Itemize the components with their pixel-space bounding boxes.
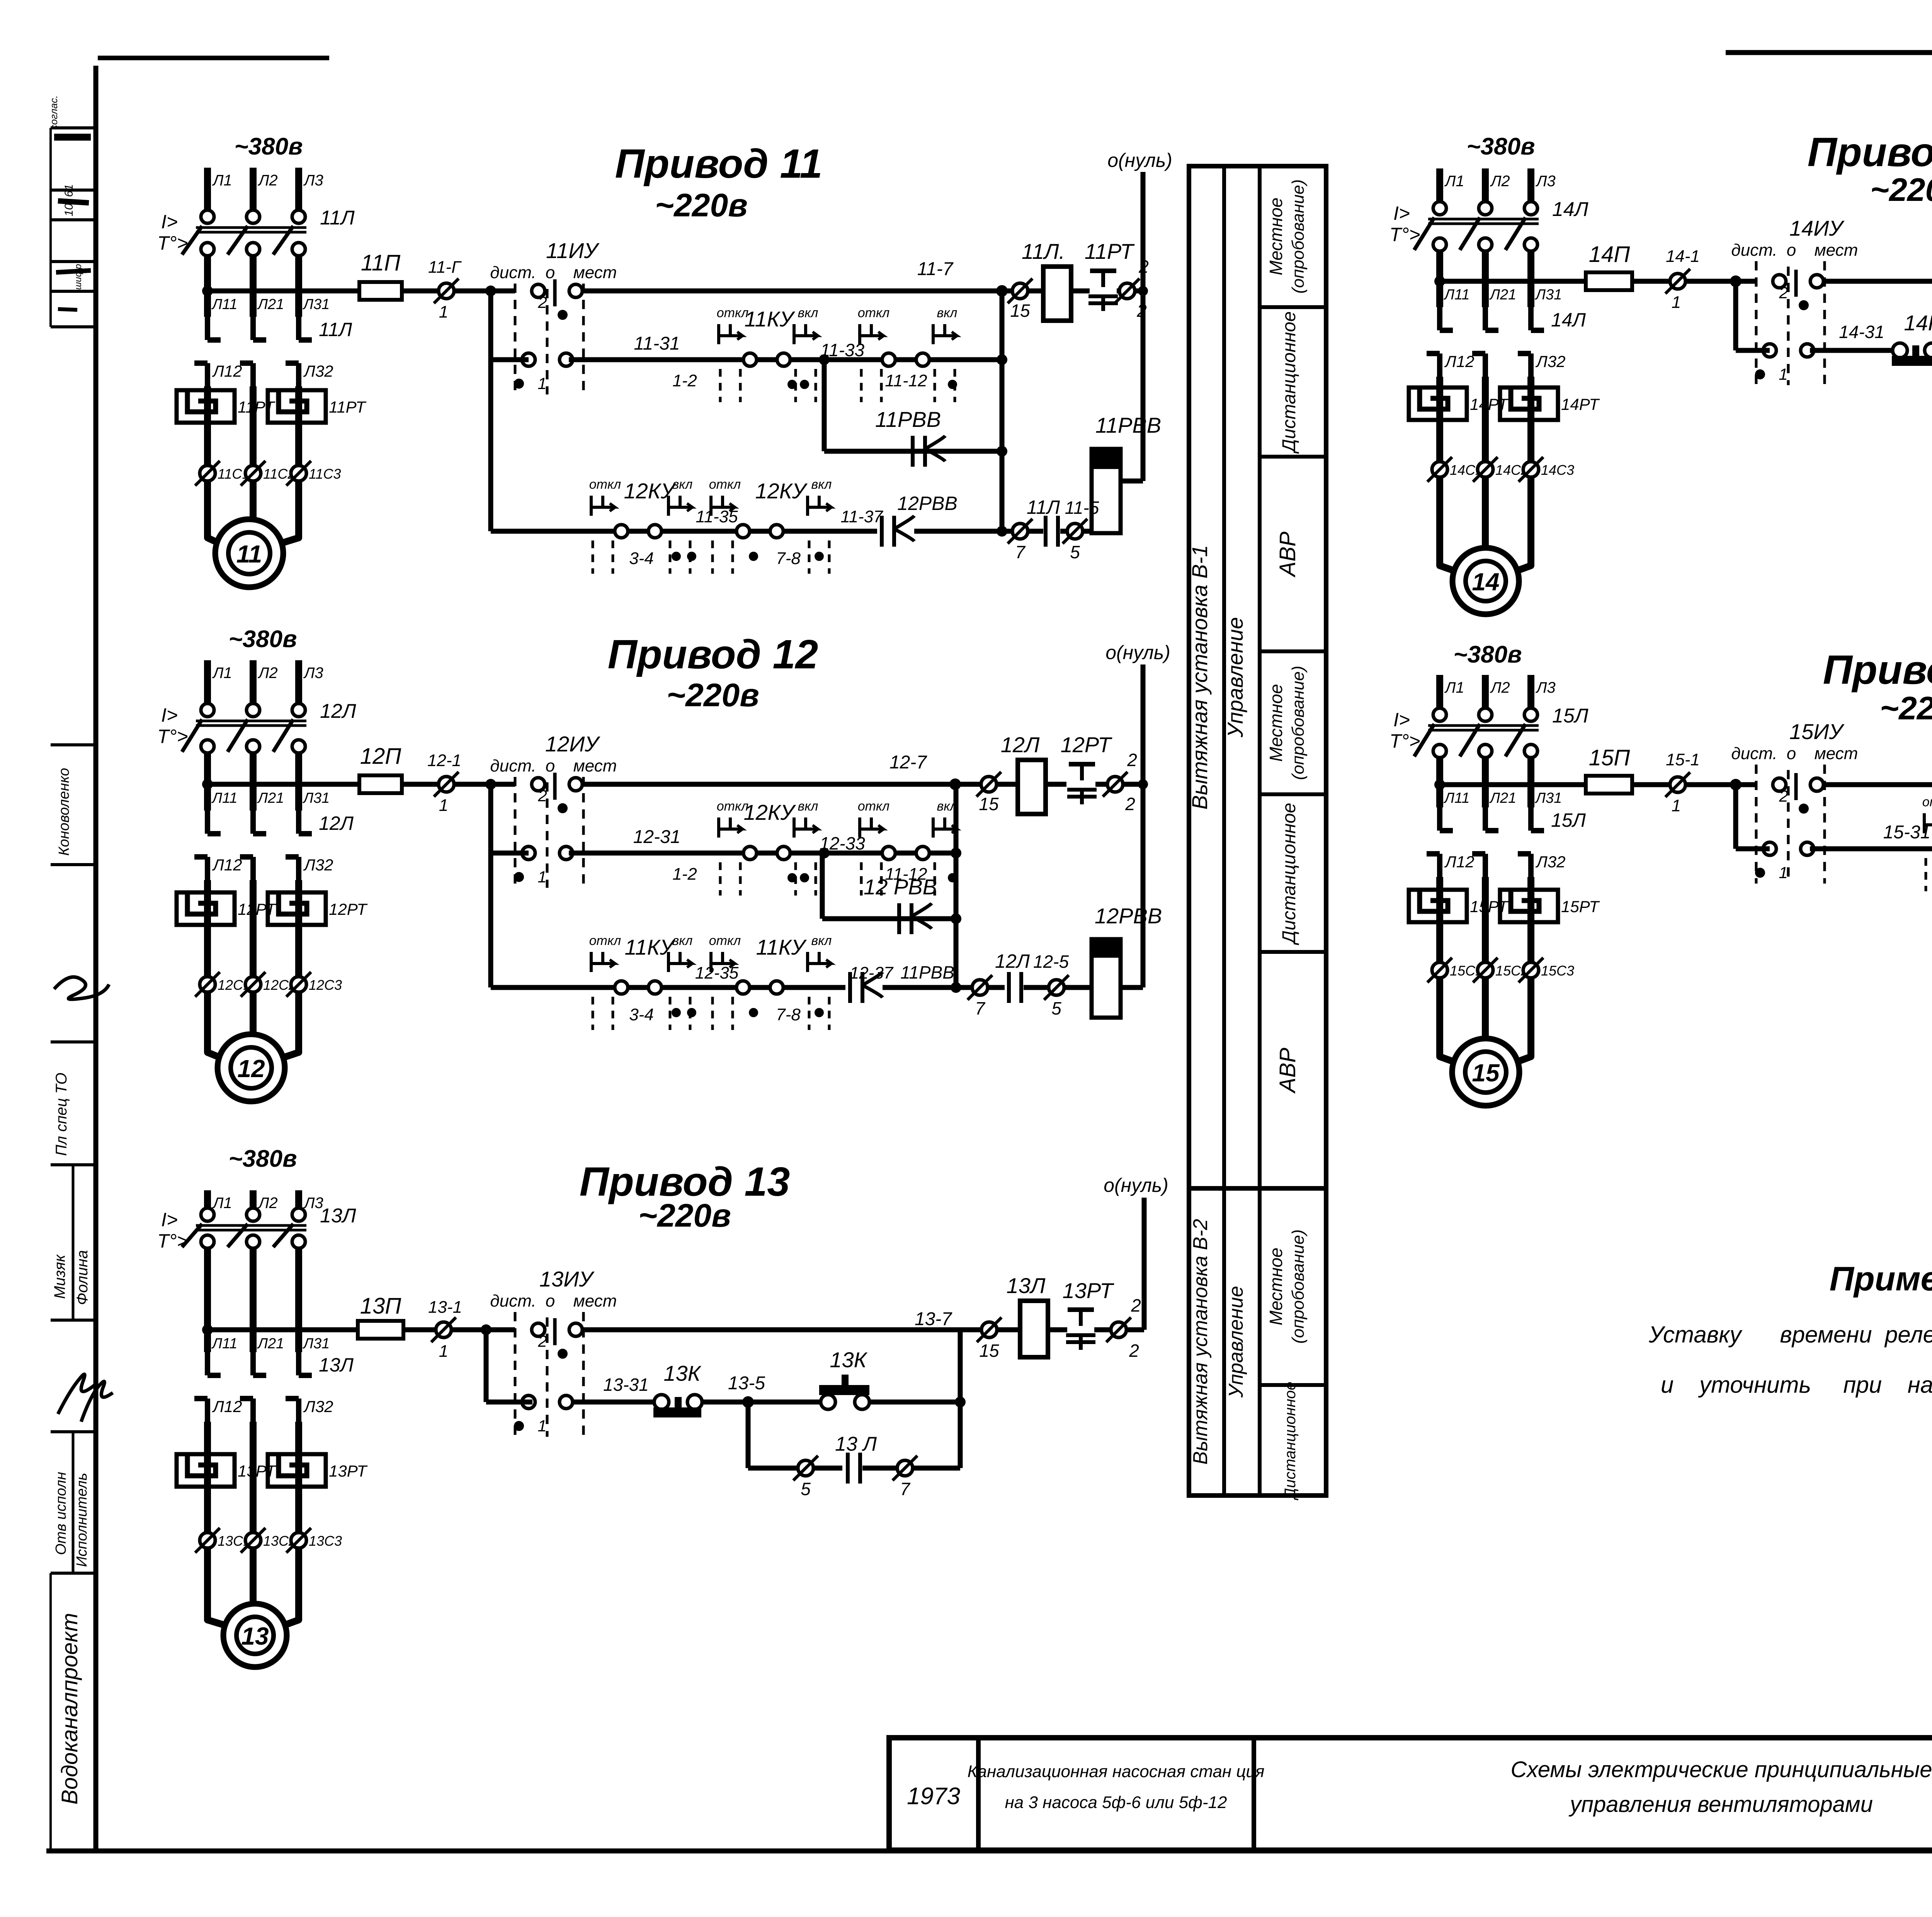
svg-text:12КУ: 12КУ — [743, 800, 796, 824]
svg-text:Схемы электрические принци: Схемы электрические принципиальные — [1510, 1757, 1932, 1782]
svg-text:откл: откл — [858, 799, 889, 814]
svg-text:2: 2 — [1127, 750, 1137, 770]
12ИУ contacts on main rung — [532, 778, 545, 791]
svg-text:I>: I> — [1393, 202, 1410, 224]
svg-text:12: 12 — [237, 1055, 265, 1083]
svg-text:Л31: Л31 — [1534, 287, 1562, 303]
svg-text:(опробование): (опробование) — [1289, 1229, 1308, 1344]
14: phase line Л3 — [1527, 168, 1534, 202]
svg-text:13: 13 — [241, 1622, 269, 1650]
svg-text:13-7: 13-7 — [915, 1309, 952, 1329]
svg-text:~220в: ~220в — [667, 677, 759, 713]
svg-text:1: 1 — [439, 1342, 448, 1361]
15: thermal relay heater 15РТ (phase1) — [1409, 890, 1467, 922]
svg-text:управления вентиляторами: управления вентиляторами — [1568, 1792, 1873, 1817]
12: phase drop 3 — [295, 753, 302, 811]
svg-text:Л1: Л1 — [212, 664, 232, 681]
svg-text:11Л: 11Л — [319, 319, 352, 340]
stamp tick — [51, 1040, 96, 1043]
motor 14 — [1452, 548, 1519, 614]
svg-text:(опробование): (опробование) — [1289, 179, 1308, 294]
svg-text:откл: откл — [858, 306, 889, 320]
svg-text:Л32: Л32 — [303, 856, 333, 874]
15: phase line Л1 — [1436, 675, 1443, 708]
motor 11 — [215, 519, 283, 587]
14: breaker linkage — [1428, 218, 1539, 221]
svg-text:1973: 1973 — [907, 1783, 960, 1810]
15: contactor main contact 3 — [1528, 807, 1534, 831]
svg-text:15П: 15П — [1589, 745, 1631, 770]
svg-text:Л31: Л31 — [302, 296, 330, 313]
svg-text:Привод 14: Привод 14 — [1808, 129, 1932, 175]
svg-text:7: 7 — [1015, 542, 1026, 562]
thermal contact 13РТ — [1068, 1307, 1094, 1312]
middle table cell divider y=1686 — [1260, 649, 1326, 653]
drive14 main rung to node 14-7 — [1825, 279, 1932, 284]
svg-text:~220в: ~220в — [1880, 690, 1932, 726]
svg-text:Вытяжная установка В-2: Вытяжная установка В-2 — [1189, 1219, 1212, 1465]
drive13 aux branch 13Л — [746, 1402, 751, 1468]
15: phase drop 3 — [1527, 758, 1534, 807]
middle table cell divider y=795 — [1260, 305, 1326, 309]
12: breaker pole 2 — [247, 704, 260, 717]
svg-text:3-4: 3-4 — [629, 549, 654, 568]
svg-text:мест: мест — [573, 756, 617, 775]
11: thermal relay heater 11РТ (phase3) — [268, 390, 326, 423]
12: motor feed wires — [207, 992, 224, 1059]
svg-text:I>: I> — [161, 211, 178, 233]
svg-text:12-7: 12-7 — [889, 752, 927, 773]
13: thermal relay heater 13РТ (phase3) — [268, 1454, 326, 1487]
15: breaker pole 2 — [1479, 708, 1492, 721]
11: motor feed wires — [207, 481, 222, 545]
svg-text:11РТ: 11РТ — [1085, 239, 1135, 263]
svg-text:12Л: 12Л — [1001, 732, 1040, 757]
15: breaker pole 3 — [1524, 708, 1537, 721]
svg-text:Т°>: Т°> — [1389, 224, 1420, 245]
drive12 main rung — [207, 782, 359, 787]
terminal 12-1 — [439, 777, 454, 792]
svg-text:2: 2 — [1125, 794, 1135, 814]
fuse 12П — [359, 775, 402, 793]
svg-text:11РВВ: 11РВВ — [900, 962, 954, 982]
svg-text:1: 1 — [537, 1417, 546, 1435]
svg-text:11-12: 11-12 — [885, 371, 927, 390]
drive13 main rung — [207, 1327, 358, 1332]
14: contactor main contact 3 — [1528, 307, 1534, 330]
svg-text:15-1: 15-1 — [1666, 750, 1700, 769]
svg-text:откл: откл — [589, 933, 621, 948]
drive12 node line 12-7 vertical — [954, 784, 959, 987]
svg-text:5: 5 — [1051, 998, 1061, 1018]
12: breaker pole 3 — [292, 704, 305, 717]
14: stator terminal 14С2 — [1478, 462, 1493, 477]
svg-text:Л31: Л31 — [1534, 790, 1562, 806]
svg-text:14: 14 — [1472, 568, 1499, 596]
svg-text:на 3 насоса 5ф-6 или 5ф-12: на 3 насоса 5ф-6 или 5ф-12 — [1005, 1793, 1227, 1812]
svg-text:2: 2 — [1129, 1341, 1139, 1361]
svg-text:мест: мест — [1815, 241, 1858, 260]
11: thermal relay heater 11РТ (phase1) — [177, 390, 235, 423]
14: thermal relay heater 14РТ (phase1) — [1409, 387, 1467, 420]
terminal 15 — [981, 1322, 997, 1337]
terminal 7 — [972, 980, 988, 995]
stamp tick — [51, 1572, 96, 1575]
svg-text:откл: откл — [589, 477, 621, 492]
svg-text:АВР: АВР — [1275, 1048, 1300, 1094]
15ИУ contacts on main rung — [1773, 778, 1786, 791]
15: phase line Л2 — [1482, 675, 1489, 708]
svg-text:Дистанционное: Дистанционное — [1282, 1382, 1299, 1500]
12КУ контакт откл 2 — [882, 846, 895, 860]
11: breaker pole 3 — [292, 210, 305, 223]
svg-text:о(нуль): о(нуль) — [1107, 150, 1172, 171]
svg-text:7: 7 — [975, 998, 985, 1018]
signatures — [58, 1374, 95, 1414]
svg-text:11П: 11П — [361, 250, 401, 275]
svg-text:дист.: дист. — [1731, 241, 1777, 260]
15: contactor main contact 2 — [1483, 807, 1488, 831]
terminal 13-1 — [436, 1322, 451, 1337]
svg-text:15ИУ: 15ИУ — [1789, 719, 1845, 744]
svg-text:о: о — [546, 1292, 555, 1310]
signature squiggle — [54, 977, 109, 999]
svg-text:Вытяжная установка В-1: Вытяжная установка В-1 — [1187, 545, 1212, 809]
12: thermal relay heater 12РТ (phase1) — [177, 892, 235, 925]
13: phase line Л3 — [295, 1190, 302, 1208]
frame left border — [94, 66, 99, 1851]
svg-text:2: 2 — [537, 293, 547, 311]
svg-text:Л32: Л32 — [1535, 352, 1566, 370]
svg-text:Местное: Местное — [1266, 684, 1286, 761]
11РВВ instant contact branch — [822, 360, 827, 451]
15: motor feed wires — [1440, 978, 1459, 1064]
13ИУ contacts on main rung — [532, 1323, 545, 1336]
svg-text:11-37: 11-37 — [840, 507, 883, 526]
svg-text:~220в: ~220в — [655, 187, 748, 223]
svg-text:13 Л: 13 Л — [835, 1433, 877, 1455]
svg-text:Л32: Л32 — [303, 1397, 333, 1416]
fuse 11П — [359, 282, 402, 300]
15: thermal relay heater 15РТ (phase3) — [1500, 890, 1558, 922]
svg-text:12-5: 12-5 — [1033, 952, 1069, 972]
svg-text:14-31: 14-31 — [1839, 322, 1884, 342]
svg-text:15С3: 15С3 — [1541, 963, 1574, 979]
11КУ контакт откл 2 (rung3) — [736, 981, 750, 994]
13: contactor main contact 3 — [296, 1352, 301, 1375]
svg-text:11Л.: 11Л. — [1022, 239, 1065, 263]
terminal 2 — [1111, 1322, 1126, 1337]
svg-text:Л3: Л3 — [1535, 679, 1556, 696]
12: thermal relay heater 12РТ (phase3) — [268, 892, 326, 925]
svg-text:13К: 13К — [830, 1348, 867, 1372]
svg-text:Л12: Л12 — [1444, 352, 1475, 370]
11КУ контакт вкл 2 (rung3) — [808, 962, 831, 965]
middle table cell divider y=3585 — [1260, 1383, 1326, 1387]
terminal 15-1 — [1670, 777, 1685, 792]
12: phase line Л2 — [250, 660, 257, 704]
11: phase line Л1 — [204, 168, 211, 210]
terminal 7 — [897, 1460, 913, 1476]
frame bottom border — [46, 1849, 1932, 1854]
terminal 14-1 — [1670, 274, 1685, 289]
11: contactor main contact 2 — [250, 317, 256, 340]
drive13 branch down to rung2 — [484, 1330, 489, 1402]
15: stator terminal 15С1 — [1432, 962, 1447, 978]
svg-text:I>: I> — [1393, 709, 1410, 731]
13: wires to thermal relays — [204, 1422, 211, 1487]
stamp smudges — [54, 134, 91, 141]
svg-text:13П: 13П — [360, 1293, 402, 1319]
middle table cell divider y=2056 — [1260, 792, 1326, 796]
12КУ контакт вкл 2 — [933, 828, 956, 831]
svg-text:12КУ: 12КУ — [755, 479, 808, 503]
13: breaker linkage — [196, 1224, 306, 1227]
svg-text:12-1: 12-1 — [427, 751, 461, 770]
svg-text:15Л: 15Л — [1551, 809, 1586, 831]
12КУ контакт откл 2 (rung3) — [736, 525, 750, 538]
15ИУ contacts on lower rung — [1763, 842, 1776, 855]
11ИУ contacts on main rung — [532, 284, 545, 297]
svg-text:12РТ: 12РТ — [329, 900, 368, 918]
svg-text:14С3: 14С3 — [1541, 462, 1574, 478]
svg-text:13РТ: 13РТ — [329, 1462, 368, 1480]
svg-text:14-1: 14-1 — [1666, 247, 1700, 266]
11: breaker pole 2 — [247, 210, 260, 223]
svg-text:Л31: Л31 — [302, 1336, 330, 1352]
12КУ контакт вкл — [794, 828, 817, 831]
drive14 rung2 — [1810, 348, 1893, 353]
svg-text:Л1: Л1 — [212, 1195, 232, 1212]
svg-text:Привод 15: Привод 15 — [1823, 647, 1932, 693]
15: breaker pole 1 — [1433, 708, 1446, 721]
14: contactor main contact 2 — [1483, 307, 1488, 330]
time relay coil 11РВВ — [1092, 449, 1121, 533]
svg-text:вкл: вкл — [811, 933, 832, 948]
svg-text:откл: откл — [709, 933, 741, 948]
svg-text:1: 1 — [1672, 293, 1681, 312]
11КУ контакт откл — [743, 353, 757, 366]
terminal 2 — [1107, 777, 1123, 792]
14: stator terminal 14С3 — [1523, 462, 1539, 477]
stamp tick — [51, 1430, 96, 1433]
terminal 15 — [1002, 289, 1012, 294]
svg-text:Привод 11: Привод 11 — [615, 141, 823, 187]
svg-text:13ИУ: 13ИУ — [539, 1267, 595, 1291]
11: breaker pole 1 — [201, 210, 214, 223]
13: phase drop 2 — [250, 1248, 257, 1352]
drive11 branch down to rung2 — [488, 291, 493, 360]
drive13 main rung to node 13-7 — [582, 1327, 960, 1332]
svg-text:Уставку времени реле 1: Уставку времени реле 11РВВ, 12РВВ и 15РВ… — [1648, 1322, 1932, 1348]
13: stator terminal 13С3 — [291, 1533, 306, 1548]
svg-text:~220в: ~220в — [1870, 172, 1932, 208]
svg-text:13-5: 13-5 — [728, 1373, 765, 1394]
svg-text:откл: откл — [709, 477, 741, 492]
svg-text:14Л: 14Л — [1551, 309, 1586, 331]
13: thermal relay heater 13РТ (phase1) — [177, 1454, 235, 1487]
svg-text:Л3: Л3 — [303, 172, 323, 189]
svg-text:15РТ: 15РТ — [1470, 897, 1509, 916]
svg-text:11Л: 11Л — [320, 207, 355, 229]
svg-text:11-7: 11-7 — [917, 259, 954, 279]
middle table cell divider y=2464 — [1260, 950, 1326, 954]
drive15 main rung — [1440, 782, 1586, 787]
terminal 7 — [1012, 523, 1028, 539]
svg-text:Л12: Л12 — [212, 1397, 242, 1416]
drive12 rung3 — [488, 853, 493, 987]
svg-text:I>: I> — [161, 1209, 178, 1230]
svg-text:о(нуль): о(нуль) — [1104, 1174, 1168, 1196]
svg-text:о(нуль): о(нуль) — [1105, 642, 1170, 663]
svg-text:Л2: Л2 — [257, 172, 278, 189]
svg-text:1: 1 — [1779, 365, 1787, 383]
svg-text:Л11: Л11 — [1443, 287, 1470, 303]
drive12 main rung to node 12-7 — [583, 782, 955, 787]
aux contact 13Л — [814, 1466, 842, 1471]
svg-text:1: 1 — [439, 303, 448, 321]
15: wires to thermal relays — [1436, 877, 1443, 922]
svg-text:мест: мест — [573, 1292, 617, 1310]
14: phase line Л1 — [1436, 168, 1443, 202]
middle table cell divider y=1182 — [1260, 455, 1326, 459]
12ИУ dashed linkage — [514, 777, 517, 888]
svg-text:7-8: 7-8 — [776, 1005, 801, 1024]
svg-text:11-Г: 11-Г — [428, 258, 462, 277]
svg-text:Л2: Л2 — [257, 664, 278, 681]
aux contact 12Л — [988, 985, 1005, 990]
stamp tick — [51, 863, 96, 866]
14: phase drop 2 — [1482, 251, 1489, 307]
svg-text:2: 2 — [1779, 787, 1788, 805]
svg-text:15РТ: 15РТ — [1561, 897, 1600, 916]
svg-text:15: 15 — [979, 1341, 999, 1361]
svg-text:о: о — [1787, 241, 1796, 260]
svg-text:11-5: 11-5 — [1065, 498, 1099, 518]
svg-text:дист.: дист. — [490, 1292, 536, 1310]
11: phase drop 2 — [250, 256, 257, 317]
svg-text:вкл: вкл — [798, 799, 818, 814]
svg-text:Л11: Л11 — [211, 1336, 238, 1352]
svg-text:Л2: Л2 — [1490, 173, 1510, 190]
12: contactor main contact 3 — [296, 811, 301, 834]
svg-text:13Л: 13Л — [1007, 1273, 1046, 1298]
contactor coil 11Л — [1043, 267, 1071, 321]
svg-text:14Л: 14Л — [1552, 198, 1588, 221]
11: stator terminal 11С2 — [245, 466, 261, 481]
svg-text:Л1: Л1 — [1444, 679, 1464, 696]
svg-text:3-4: 3-4 — [629, 1005, 654, 1024]
svg-text:вкл: вкл — [672, 477, 693, 492]
svg-text:вкл: вкл — [672, 933, 693, 948]
svg-text:1: 1 — [439, 796, 448, 815]
svg-text:15: 15 — [1472, 1059, 1500, 1087]
svg-text:Примечание: Примечание — [1830, 1259, 1932, 1298]
svg-text:5: 5 — [801, 1479, 811, 1499]
svg-text:Л32: Л32 — [303, 362, 333, 380]
svg-text:~380в: ~380в — [1453, 641, 1522, 668]
svg-text:11-31: 11-31 — [634, 333, 680, 354]
svg-text:Л21: Л21 — [257, 790, 284, 806]
svg-text:11РВВ: 11РВВ — [1095, 413, 1161, 437]
svg-text:~220в: ~220в — [638, 1197, 731, 1234]
15: stator terminal 15С3 — [1523, 962, 1539, 978]
terminal 5 — [798, 1460, 813, 1476]
svg-text:12РВВ: 12РВВ — [897, 493, 957, 514]
14ИУ contacts on main rung — [1773, 275, 1786, 288]
svg-text:Мизяк: Мизяк — [51, 1254, 68, 1299]
thermal contact 11РТ — [1090, 269, 1116, 273]
drive13 rung2 from ИУ — [573, 1400, 654, 1405]
12КУ контакт откл (rung3) — [615, 525, 628, 538]
svg-text:откл: откл — [1922, 795, 1932, 809]
terminal 5 — [1049, 980, 1064, 995]
13: stator terminal 13С2 — [245, 1533, 261, 1548]
12: breaker pole 1 — [201, 704, 214, 717]
svg-text:13-1: 13-1 — [428, 1298, 462, 1317]
12КУ контакт откл — [743, 846, 757, 860]
12РВВ instant contact branch — [820, 853, 825, 919]
13: phase drop 1 — [204, 1248, 211, 1352]
11: wires to thermal relays — [204, 386, 211, 423]
svg-text:Л31: Л31 — [302, 790, 330, 806]
svg-text:Дистанционное: Дистанционное — [1279, 311, 1299, 454]
11: phase line Л2 — [250, 168, 257, 210]
15: breaker linkage — [1428, 724, 1539, 727]
11: contactor main contact 3 — [296, 317, 301, 340]
svg-text:и уточнить при налад: и уточнить при наладке и эксплуатации — [1661, 1372, 1932, 1398]
12: stator terminal 12С3 — [291, 977, 306, 992]
15: phase drop 1 — [1436, 758, 1443, 807]
11: phase drop 3 — [295, 256, 302, 317]
11ИУ contacts on lower rung — [522, 353, 535, 366]
svg-text:11РТ: 11РТ — [329, 398, 367, 416]
terminal 11-1 — [439, 283, 454, 299]
13: phase drop 3 — [295, 1248, 302, 1352]
svg-text:12Л: 12Л — [320, 700, 356, 722]
11КУ контакт вкл (rung3) — [668, 962, 692, 965]
14: breaker pole 1 — [1433, 202, 1446, 215]
frame top-left segment — [98, 56, 329, 60]
svg-text:Л3: Л3 — [303, 664, 323, 681]
11КУ контакт вкл 2 — [933, 334, 956, 337]
svg-text:1: 1 — [1779, 863, 1787, 882]
svg-text:вкл: вкл — [811, 477, 832, 492]
13: stator terminal 13С1 — [200, 1533, 215, 1548]
13К contact (NO) — [654, 1395, 669, 1409]
svg-text:~380в: ~380в — [1466, 133, 1535, 160]
svg-text:13С3: 13С3 — [309, 1533, 342, 1549]
svg-text:14РТ: 14РТ — [1561, 395, 1600, 413]
14: stator terminal 14С1 — [1432, 462, 1447, 477]
terminal 2 — [1119, 283, 1135, 299]
contactor coil 13Л — [1020, 1301, 1048, 1357]
14К contact (NO) — [1893, 343, 1907, 358]
14: contactor main contact 1 — [1437, 307, 1442, 330]
title block divider x=2532 — [976, 1738, 981, 1850]
svg-text:вкл: вкл — [937, 306, 957, 320]
14: motor feed wires — [1440, 477, 1459, 573]
13: motor feed wires — [207, 1548, 230, 1627]
12: phase drop 1 — [204, 753, 211, 811]
svg-text:14ИУ: 14ИУ — [1789, 216, 1845, 240]
svg-text:Л3: Л3 — [1535, 173, 1556, 190]
svg-text:7-8: 7-8 — [776, 549, 801, 568]
stamp tick — [51, 1163, 96, 1166]
svg-text:(опробование): (опробование) — [1289, 666, 1308, 780]
12: wires to thermal relays — [204, 880, 211, 925]
12: phase line Л3 — [295, 660, 302, 704]
